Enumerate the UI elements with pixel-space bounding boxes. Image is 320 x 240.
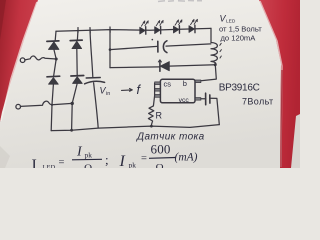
wire: Vin cap upper lead	[90, 30, 93, 77]
node: rail dot under right column	[70, 129, 73, 132]
wire: vcc pin to C3	[201, 98, 206, 100]
paper background	[0, 0, 300, 168]
node: AC2 junction dot	[71, 102, 74, 105]
svg-text:I: I	[119, 153, 126, 168]
wire: C3 right to bottom corner	[210, 98, 219, 124]
svg-text:Ω: Ω	[84, 163, 92, 169]
svg-text:=: =	[59, 158, 65, 169]
diode D4 (bridge bottom-right)	[71, 76, 84, 84]
wire: top rail corner down to coil	[210, 28, 212, 42]
svg-text:in: in	[106, 91, 110, 97]
svg-text:R: R	[156, 111, 163, 121]
wire: AC1 lead with fuse squiggle	[25, 56, 56, 60]
node: branch dot	[109, 48, 112, 51]
svg-text:b: b	[183, 79, 187, 88]
diode D5 (freewheel)	[158, 60, 169, 71]
coil winding ticks	[220, 43, 222, 58]
wire: left column bottom	[51, 84, 53, 130]
inductor L1 coil	[211, 43, 217, 66]
wire: right bridge column top tick	[77, 28, 79, 33]
AC input terminal top	[20, 58, 25, 63]
capacitor C1 (bulk, polarized)	[85, 78, 105, 84]
red folder edge right	[259, 0, 300, 168]
LED2	[155, 20, 163, 33]
diode D3 (bridge top-right)	[70, 40, 82, 49]
svg-text:7Вольт: 7Вольт	[242, 97, 274, 107]
wire: right column lower	[72, 83, 78, 130]
diode D1 (bridge top-left)	[47, 41, 59, 50]
wire: left pin bus	[153, 83, 154, 106]
wire: bottom rail	[51, 125, 219, 131]
label Vin	[100, 14, 274, 143]
arrow of Vin -> f	[122, 89, 133, 92]
svg-text:LED: LED	[43, 164, 56, 168]
node: small dot left column / AC2 crossing	[51, 104, 53, 106]
wire: top rail	[56, 28, 211, 31]
wire: left column mid	[54, 49, 57, 76]
svg-text:;: ;	[105, 152, 109, 167]
pin 1 (left top)	[155, 82, 161, 85]
svg-text:=: =	[141, 154, 147, 165]
svg-text:от 1,5 Вольт: от 1,5 Вольт	[219, 25, 262, 34]
wire: AC2 lead with loop	[21, 101, 73, 106]
node: junction tick at x=110	[109, 27, 111, 32]
shadow wedge bottom-left	[0, 146, 10, 168]
wire: mid vertical branch	[109, 30, 111, 68]
capacitor C2	[158, 41, 167, 53]
formula I_LED = Ipk/Om ; Ipk = 600/Om (mA)	[32, 142, 198, 175]
node: junction tick at x=90	[89, 28, 91, 33]
svg-text:600: 600	[151, 142, 171, 157]
node: coil/diode junction dot	[214, 63, 217, 66]
IC U1 BP3916C body	[160, 79, 195, 103]
svg-text:vcc: vcc	[179, 97, 190, 104]
svg-text:pk: pk	[129, 161, 137, 169]
pin 3 (left bottom)	[155, 95, 161, 98]
diode D2 (bridge bottom-left)	[47, 76, 60, 84]
wire: C2 to coil top	[166, 44, 211, 46]
AC input terminal bottom	[16, 104, 21, 109]
wire: D5 to coil junction	[169, 65, 215, 66]
LED3	[174, 20, 182, 33]
node: AC1 junction dot	[55, 58, 58, 61]
svg-text:BP3916C: BP3916C	[219, 83, 260, 94]
capacitor C3 (vcc)	[206, 93, 210, 105]
svg-text:(mA): (mA)	[175, 152, 198, 164]
LED1	[140, 21, 148, 34]
pin D (right top)	[195, 80, 201, 83]
wire: right column mid	[76, 49, 78, 76]
svg-text:pk: pk	[85, 151, 93, 160]
resistor R1 (sense)	[148, 106, 153, 126]
wire: right column upper	[76, 30, 79, 40]
wire: snubber branch to C2	[110, 46, 157, 49]
LED4	[189, 19, 197, 32]
svg-text:cs: cs	[164, 80, 172, 89]
svg-text:до 120mA: до 120mA	[221, 34, 257, 43]
pin vcc (right bottom)	[195, 98, 201, 101]
wire: junction down to D pin	[201, 65, 216, 81]
svg-text:Ω: Ω	[156, 162, 164, 168]
red folder edge left	[0, 0, 38, 122]
wire: freewheel branch	[110, 66, 160, 69]
wire: Vin cap lower lead	[94, 83, 99, 128]
white paper sliver bottom-right	[291, 114, 300, 168]
svg-text:I: I	[32, 157, 37, 168]
pin 2 (left mid)	[155, 88, 161, 91]
wire: left bridge column top	[54, 31, 57, 40]
pen dot near C2	[152, 39, 154, 41]
node: R1 rail dot	[150, 125, 153, 128]
faint cut-off writing at top edge	[158, 0, 202, 3]
